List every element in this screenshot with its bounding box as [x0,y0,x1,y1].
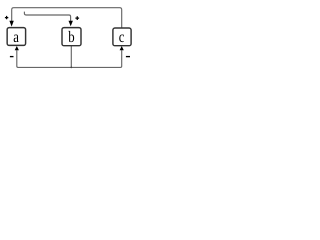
svg-text:a: a [13,29,19,46]
svg-text:c: c [119,29,125,46]
svg-text:b: b [68,29,74,46]
